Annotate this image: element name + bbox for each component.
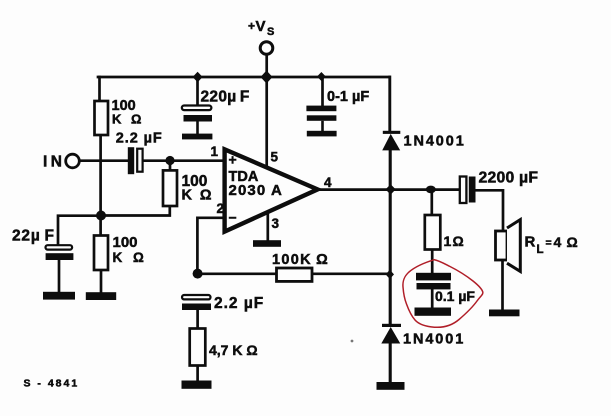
wire C2 to ground	[196, 122, 199, 135]
capacitor C2 solid bottom plate	[184, 115, 213, 122]
svg-text:K Ω: K Ω	[113, 250, 148, 265]
capacitor C7 solid right plate	[469, 177, 476, 203]
wire 0.1uF stem	[321, 77, 324, 106]
svg-text:220µ F: 220µ F	[201, 89, 250, 106]
diode D1 1N4001 cathode bar	[383, 131, 401, 134]
svg-text:0.1 µF: 0.1 µF	[435, 288, 475, 304]
wire node A to 22uF	[58, 216, 101, 245]
wire 22uF stem to ground	[58, 260, 61, 292]
node dot rail +Vs	[261, 71, 273, 84]
wire R3 bottom to node A	[101, 206, 170, 216]
wire node dot to R3	[169, 161, 172, 171]
resistor R2 100K bottom-left	[94, 236, 108, 271]
svg-text:4: 4	[324, 175, 332, 190]
terminal IN circle	[66, 154, 80, 168]
ground under C3	[307, 131, 337, 137]
red annotation loop	[403, 260, 483, 328]
wire C6 to ground	[431, 289, 434, 308]
svg-text:2.2 µF: 2.2 µF	[116, 131, 163, 147]
capacitor C2 220uF hollow top plate	[182, 106, 212, 111]
wire pin 3 to ground	[266, 211, 269, 241]
op-amp U1 TDA2030A triangle	[225, 149, 318, 231]
wire IN to C1	[80, 159, 129, 162]
svg-text:2030 A: 2030 A	[229, 182, 283, 199]
svg-text:V: V	[256, 18, 266, 35]
svg-text:IN: IN	[43, 153, 65, 170]
node dot output-D1	[386, 184, 396, 194]
svg-text:R: R	[525, 234, 536, 251]
capacitor C7 2200uF hollow left plate	[460, 177, 467, 204]
svg-text:2: 2	[217, 201, 225, 216]
svg-text:0-1 µF: 0-1 µF	[327, 89, 369, 105]
wire left rail drop to R1	[98, 77, 101, 101]
wire op-amp output to 2200uF	[317, 188, 460, 191]
wire 2200uF to speaker	[476, 190, 504, 231]
svg-text:−: −	[229, 210, 237, 226]
svg-text:K Ω: K Ω	[182, 187, 215, 203]
wire D1 to D2 main vertical	[389, 151, 392, 325]
svg-text:+: +	[248, 19, 255, 33]
wire C5 to R7	[196, 309, 199, 328]
ground under C6	[415, 308, 452, 316]
node dot A (left bias)	[96, 211, 106, 221]
wire pin 2 to feedback node	[197, 218, 224, 274]
wire C3 to ground	[321, 121, 324, 132]
svg-text:S: S	[267, 26, 274, 38]
svg-text:100: 100	[113, 234, 138, 251]
capacitor C1 2.2uF input: solid left plate	[128, 147, 134, 174]
ground under R2	[86, 292, 116, 300]
node dot output-1ohm	[426, 186, 436, 194]
capacitor C1 hollow right plate	[137, 149, 142, 172]
svg-text:S - 4841: S - 4841	[24, 378, 80, 390]
svg-text:5: 5	[271, 150, 279, 165]
speaker coil box	[496, 231, 508, 260]
wire +Vs to rail and pin 5	[265, 55, 268, 169]
ground under R7	[182, 381, 212, 389]
wire R2 to ground	[100, 270, 103, 293]
svg-text:K Ω: K Ω	[112, 112, 145, 127]
terminal +Vs	[260, 42, 273, 55]
svg-text:3: 3	[272, 216, 280, 231]
resistor R1 100K top-left	[95, 101, 109, 135]
svg-text:1N4001: 1N4001	[403, 332, 465, 348]
svg-text:2.2 µF: 2.2 µF	[214, 295, 264, 312]
svg-text:22µ F: 22µ F	[12, 228, 55, 245]
svg-text:L: L	[537, 244, 544, 256]
wire speaker to ground	[501, 260, 504, 310]
node dot feedback right	[386, 270, 394, 279]
stray speck	[351, 340, 354, 343]
svg-text:+: +	[229, 152, 237, 168]
capacitor C6 plate 2	[417, 283, 451, 289]
svg-text:1: 1	[211, 144, 219, 159]
wire 1ohm branch stem	[430, 190, 433, 215]
capacitor C5 solid bottom plate	[182, 304, 211, 311]
svg-text:2200 µF: 2200 µF	[479, 169, 539, 186]
svg-text:=: =	[546, 237, 552, 249]
capacitor C4 22uF hollow top plate	[46, 245, 73, 249]
svg-text:100K Ω: 100K Ω	[272, 252, 329, 268]
wire D2 to ground	[389, 344, 392, 383]
resistor R6 100K feedback horizontal	[277, 268, 313, 281]
ground under pin 3	[253, 240, 281, 247]
capacitor C3 0.1uF top plate	[306, 106, 336, 112]
diode D2 triangle	[381, 327, 400, 344]
resistor R4 1 ohm	[425, 215, 441, 250]
wire feedback line right of R6	[312, 272, 391, 275]
wire top supply rail	[98, 76, 389, 79]
speaker horn	[507, 220, 520, 272]
svg-text:1 Ω: 1 Ω	[444, 233, 464, 249]
wire C1 to pin 1	[143, 159, 225, 162]
ground under C4	[43, 292, 75, 300]
node dot rail-0.1uF	[317, 72, 326, 81]
capacitor C5 2.2uF feedback hollow top plate	[182, 295, 211, 299]
node dot rail-220uF	[193, 72, 203, 82]
diode D1 triangle	[382, 134, 400, 151]
wire right rail drop to D1	[388, 77, 391, 132]
wire 220uF stem	[196, 77, 199, 106]
wire 1ohm to C6	[431, 250, 434, 273]
ground under D2	[377, 382, 405, 390]
resistor R7 4.7K	[190, 329, 206, 366]
ground under speaker	[489, 310, 520, 317]
svg-text:4,7 K Ω: 4,7 K Ω	[209, 342, 258, 358]
svg-text:1N4001: 1N4001	[404, 134, 466, 150]
svg-text:4 Ω: 4 Ω	[554, 234, 579, 250]
resistor R3 100K middle	[163, 170, 177, 206]
node dot feedback left	[193, 269, 203, 279]
capacitor C6 0.1uF output plate 1	[416, 273, 451, 281]
capacitor C4 solid bottom plate	[46, 253, 74, 260]
capacitor C3 bottom plate	[307, 115, 337, 121]
node dot input-R3	[165, 156, 174, 165]
diode D2 1N4001 cathode bar	[382, 324, 401, 327]
wire R7 to ground	[196, 366, 199, 382]
wire R1 bottom through IN line to node A	[99, 135, 102, 236]
ground under C2	[182, 134, 212, 140]
wire feedback line left of R6	[198, 272, 277, 275]
